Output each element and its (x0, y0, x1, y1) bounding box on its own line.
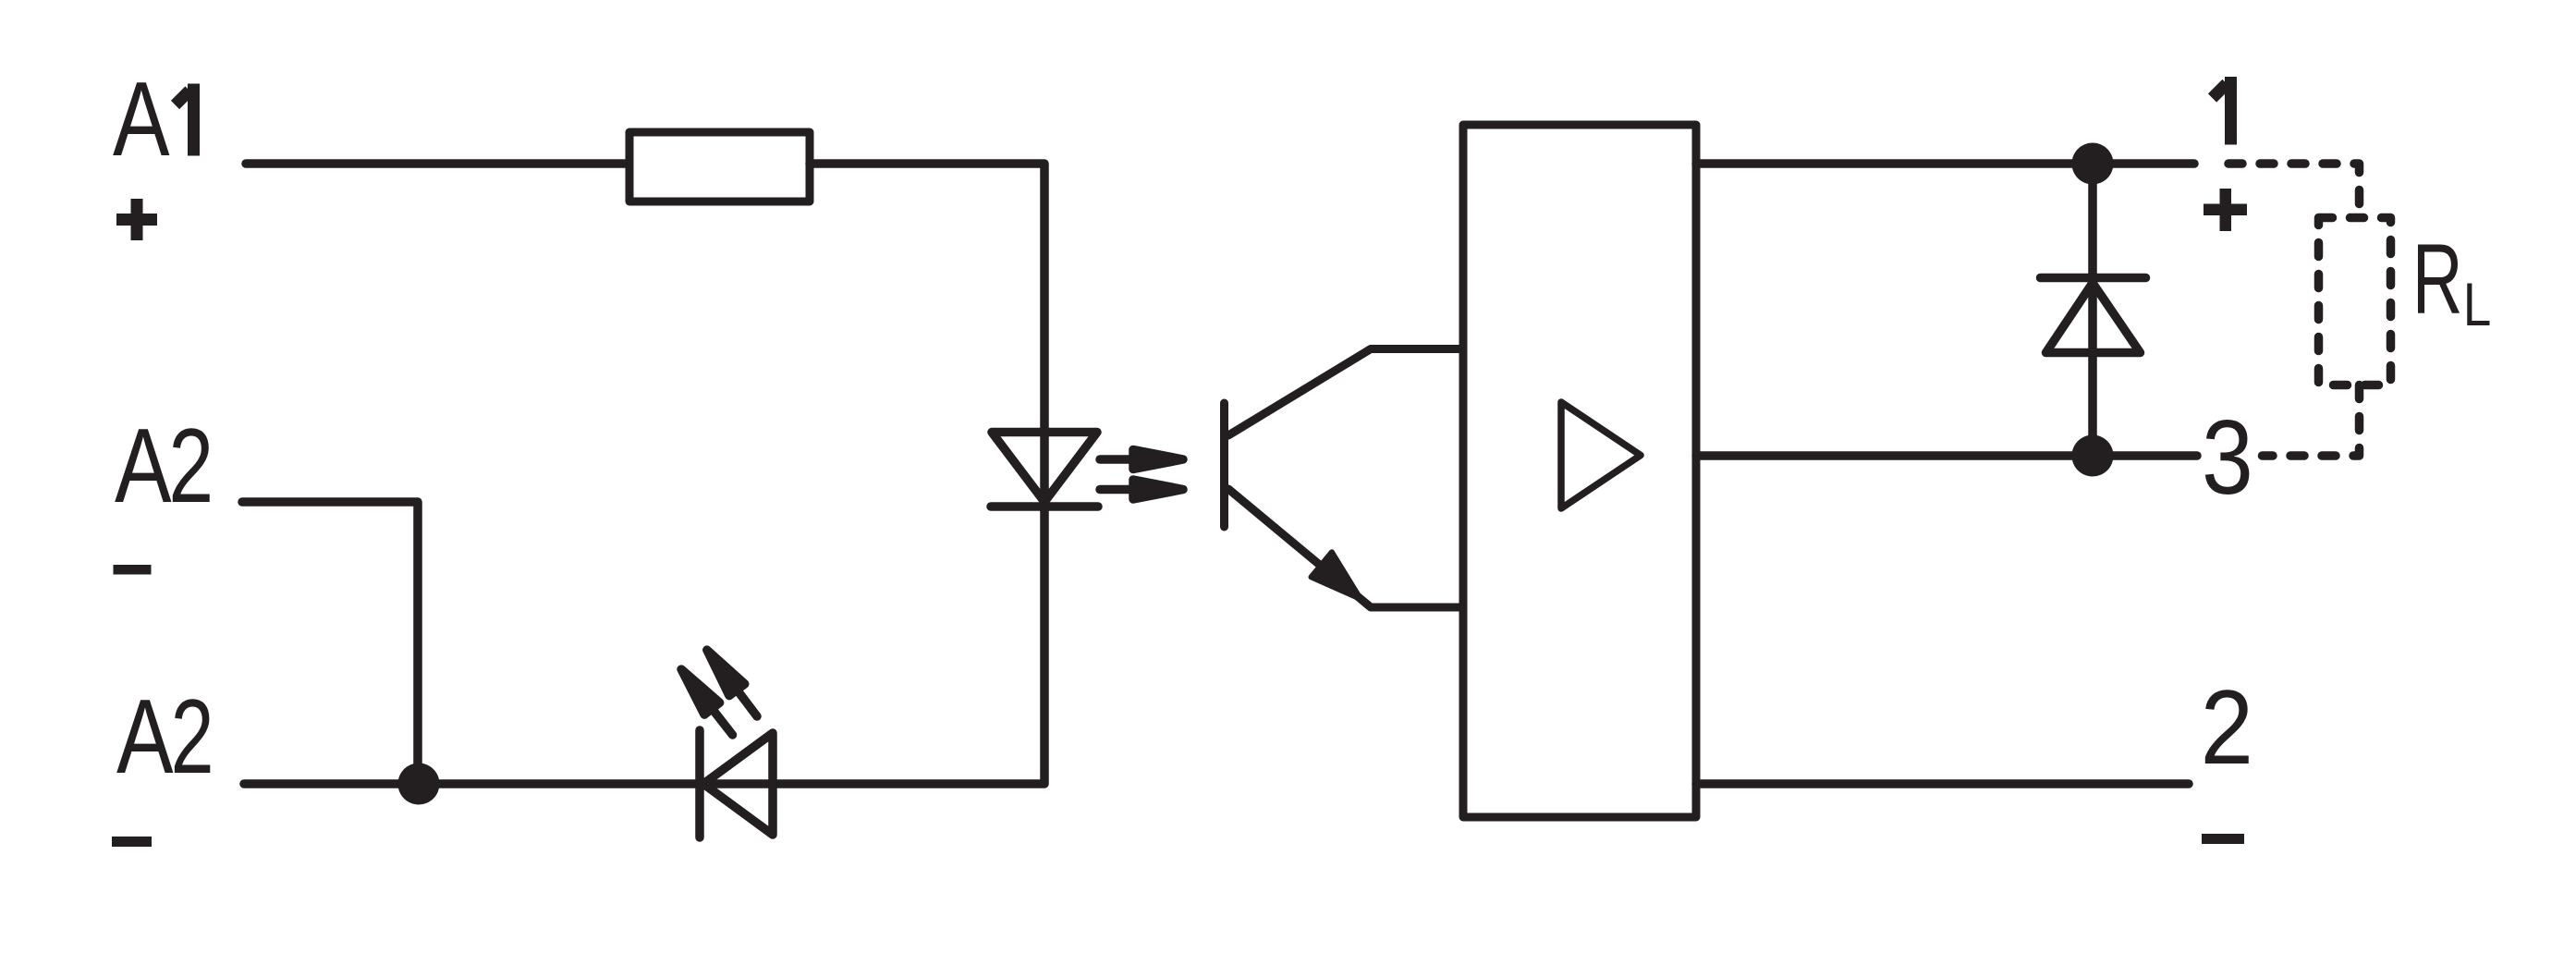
svg-text:A: A (116, 678, 174, 795)
svg-text:3: 3 (2202, 398, 2253, 516)
svg-text:2: 2 (168, 407, 214, 525)
svg-text:R: R (2412, 223, 2463, 335)
svg-text:L: L (2463, 270, 2492, 338)
svg-text:2: 2 (171, 678, 214, 796)
svg-text:2: 2 (2201, 669, 2253, 787)
svg-text:A: A (115, 407, 172, 524)
svg-text:A: A (113, 60, 170, 177)
